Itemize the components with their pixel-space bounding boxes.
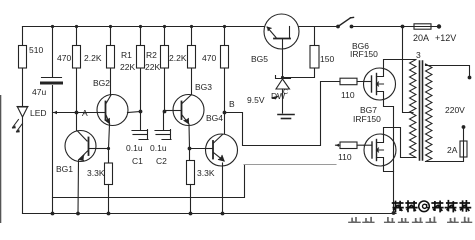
svg-text:110: 110 — [341, 90, 355, 100]
transformer T1 primary winding — [410, 60, 417, 158]
node rail dot x164 — [163, 25, 166, 28]
mosfet BG7 IRF150 — [364, 134, 396, 166]
resistor 510 — [19, 46, 27, 69]
svg-text:B: B — [229, 99, 235, 109]
svg-text:470: 470 — [202, 53, 216, 63]
svg-text:2A: 2A — [447, 145, 458, 155]
wire ground rail — [23, 213, 397, 215]
wire R2 branch to C2 — [164, 27, 166, 112]
wire top supply rail — [23, 26, 265, 28]
svg-text:BG4: BG4 — [206, 113, 223, 123]
wire gate bus from A side: bottom bus and riser — [53, 165, 245, 198]
resistor 470 (first) — [73, 46, 81, 69]
wire rail right of BG5 to switch — [299, 26, 338, 28]
capacitor / termination below DW — [278, 115, 294, 119]
resistor 110 (BG6 gate) — [340, 78, 357, 85]
svg-text:510: 510 — [29, 45, 43, 55]
wire 110 to BG6 gate — [335, 81, 364, 83]
watermark row 1 — [393, 201, 471, 212]
svg-text:0.1u: 0.1u — [150, 143, 167, 153]
arrow tick at BG7 gate resistor lead — [335, 144, 339, 147]
wire gray drive line to BG7 gate resistor — [244, 164, 336, 166]
svg-text:150: 150 — [320, 54, 334, 64]
svg-text:220V: 220V — [445, 105, 465, 115]
mosfet BG6 IRF150 — [364, 68, 396, 100]
node rail dot x110 — [109, 25, 112, 28]
svg-text:22K: 22K — [145, 62, 160, 72]
transformer T1 secondary winding — [426, 64, 433, 162]
svg-text:2.2K: 2.2K — [169, 53, 187, 63]
transformer core — [420, 61, 423, 160]
resistor 110 (BG7 gate) — [340, 142, 357, 149]
resistor R1 22K — [137, 46, 145, 69]
wire BG6 source down to source bus — [384, 100, 394, 214]
svg-text:22K: 22K — [120, 62, 135, 72]
transistor BG5 (series pass) — [264, 14, 299, 49]
wire 470 second branch to node B and BG4 collector — [224, 27, 226, 135]
wire secondary top lead to output — [426, 64, 470, 76]
transistor BG3 — [173, 95, 204, 126]
node rail dot x191 — [190, 25, 193, 28]
edge artifact left border — [0, 95, 1, 223]
node C1 top dot — [139, 110, 143, 114]
svg-text:47u: 47u — [32, 87, 46, 97]
svg-text:R1: R1 — [121, 50, 132, 60]
node rail dot x140 — [139, 25, 142, 28]
transistor BG2 — [97, 95, 128, 126]
capacitor C2 — [155, 112, 171, 140]
wire BG3 emitter to junction — [188, 124, 191, 161]
svg-text:20A: 20A — [413, 33, 429, 43]
resistor 3.3K (second) — [187, 161, 195, 185]
watermark row 2 clipped — [349, 218, 471, 228]
node rail dot x52 — [51, 25, 54, 28]
node riser rail dot — [401, 25, 405, 29]
arrow from 9.5V pointing to node C — [271, 96, 279, 100]
wire BG1 base to 3.3K node — [96, 148, 109, 150]
wire center tap riser — [403, 27, 414, 113]
wire BG7 drain to transformer bottom — [384, 128, 417, 158]
svg-text:LED: LED — [30, 108, 47, 118]
wire rail switch to +12V terminal — [352, 26, 439, 28]
wire BG2 emitter down to base node of BG1 — [109, 124, 110, 163]
wire secondary bottom lead to fuse 2A — [426, 157, 464, 162]
node A — [75, 111, 79, 115]
wire C2 top to BG3 base — [165, 110, 174, 112]
wire 2.2K branch to BG2 collector — [110, 27, 112, 96]
wire BG5 base down to zener — [282, 48, 284, 78]
resistor 3.3K (first) — [105, 163, 113, 185]
svg-text:C1: C1 — [132, 156, 143, 166]
fuse 2A — [460, 141, 467, 157]
wire fuse 2A up to terminal — [463, 129, 465, 142]
node rail dot x76 — [75, 25, 78, 28]
svg-text:BG3: BG3 — [195, 82, 212, 92]
transistor BG1 — [65, 131, 96, 162]
capacitor 47u — [42, 78, 62, 84]
svg-text:A: A — [82, 108, 88, 118]
svg-text:R2: R2 — [146, 50, 157, 60]
wire 47u branch vertical — [52, 27, 54, 214]
wire BG1 emitter down — [77, 160, 80, 214]
svg-text:2.2K: 2.2K — [84, 53, 102, 63]
wire R1 branch to C1 — [140, 27, 142, 112]
node base/150 junction — [281, 76, 284, 79]
wire node A horizontal — [53, 112, 99, 114]
svg-text:IRF150: IRF150 — [353, 114, 381, 124]
node BG1 base / BG2 emitter junction — [107, 147, 110, 150]
node ground junction dots — [51, 212, 55, 216]
node C2 top dot — [163, 110, 167, 114]
capacitor C1 — [132, 112, 148, 140]
wire BG7 source join source bus — [384, 166, 394, 172]
svg-text:3.3K: 3.3K — [87, 168, 105, 178]
svg-text:0.1u: 0.1u — [126, 143, 143, 153]
svg-text:9.5V: 9.5V — [247, 95, 265, 105]
svg-text:+12V: +12V — [435, 33, 456, 43]
resistor R2 22K — [161, 46, 169, 69]
fuse 20A — [414, 24, 431, 29]
transistor BG4 — [205, 134, 238, 166]
svg-text:110: 110 — [338, 152, 352, 162]
node BG3 emitter junction — [188, 147, 192, 151]
wire BG6 drain to transformer top — [384, 60, 417, 69]
wire node B to gate line of BG6 (rectangle path) — [225, 82, 336, 146]
svg-text:3.3K: 3.3K — [197, 168, 215, 178]
node output terminal bottom — [462, 125, 466, 129]
resistor 2.2K (second) — [188, 46, 196, 69]
wire 2.2K second branch to BG3 collector — [191, 27, 193, 96]
wire zener anode down — [282, 89, 284, 113]
svg-text:BG5: BG5 — [251, 54, 268, 64]
node B — [223, 111, 227, 115]
zener diode DW — [276, 76, 291, 90]
wire 150 resistor link — [283, 27, 315, 78]
node +12V terminal dot — [437, 24, 441, 28]
svg-text:470: 470 — [57, 53, 71, 63]
resistor 470 (second) — [221, 46, 229, 69]
wire 3.3K second to ground rail — [190, 185, 192, 214]
resistor 2.2K (first) — [107, 46, 115, 69]
wire BG4 emitter down to ground rail — [222, 163, 224, 214]
wire BG3 emitter junction to BG4 base — [190, 148, 206, 150]
svg-text:BG2: BG2 — [93, 78, 110, 88]
wire 110 to BG7 gate — [336, 144, 365, 146]
wire BG2 collector to C1 top — [128, 112, 141, 113]
svg-text:C2: C2 — [156, 156, 167, 166]
wire 470 branch to node A — [76, 27, 78, 132]
arrow tick at A wire left end — [53, 111, 57, 115]
LED D1 — [12, 107, 28, 133]
wire 3.3K first to ground rail — [108, 185, 110, 214]
wire left branch (510/LED) vertical — [22, 27, 24, 214]
node output terminal top — [468, 76, 472, 80]
svg-text:3: 3 — [416, 50, 421, 60]
svg-text:DW: DW — [271, 91, 285, 101]
node rail dot x224 — [223, 25, 226, 28]
resistor 150 — [310, 46, 319, 69]
switch S — [336, 17, 353, 28]
svg-text:BG1: BG1 — [56, 164, 73, 174]
svg-text:IRF150: IRF150 — [350, 49, 378, 59]
